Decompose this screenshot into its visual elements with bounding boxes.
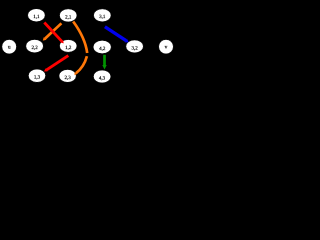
node (4,2): [93, 40, 111, 53]
node (1,2): [59, 40, 76, 53]
node v: [159, 40, 174, 54]
svg-text:4,3: 4,3: [99, 76, 106, 82]
edge (2,1)->(2,3) orange arc: [73, 22, 87, 76]
svg-text:2,2: 2,2: [31, 45, 38, 51]
edge (3,1)->(3,2) blue: [105, 27, 129, 43]
svg-text:1,1: 1,1: [33, 14, 40, 20]
node u: [2, 40, 17, 54]
edge (4,2)->(4,3) green: [102, 55, 106, 70]
node (3,2): [126, 40, 143, 53]
svg-text:u: u: [8, 45, 11, 51]
edge (2,1)->(2,2) orange: [43, 23, 62, 40]
svg-text:3,1: 3,1: [99, 14, 106, 20]
node (1,3): [28, 69, 45, 82]
node (2,2): [26, 40, 44, 53]
svg-text:4,2: 4,2: [99, 46, 106, 52]
node (3,1): [94, 9, 111, 22]
svg-text:v: v: [165, 45, 168, 51]
node (2,3): [59, 70, 76, 83]
node (1,1): [28, 9, 45, 22]
svg-text:3,2: 3,2: [131, 45, 138, 51]
svg-text:2,1: 2,1: [65, 14, 72, 20]
svg-text:1,3: 1,3: [34, 75, 41, 81]
svg-text:2,3: 2,3: [64, 75, 71, 81]
edge (1,1)->(1,2) red: [44, 23, 63, 44]
svg-text:1,2: 1,2: [65, 45, 72, 51]
node (2,1): [59, 9, 76, 22]
edge (1,2)->(1,3) red: [44, 56, 68, 72]
background: [0, 0, 180, 103]
node (4,3): [93, 70, 110, 83]
